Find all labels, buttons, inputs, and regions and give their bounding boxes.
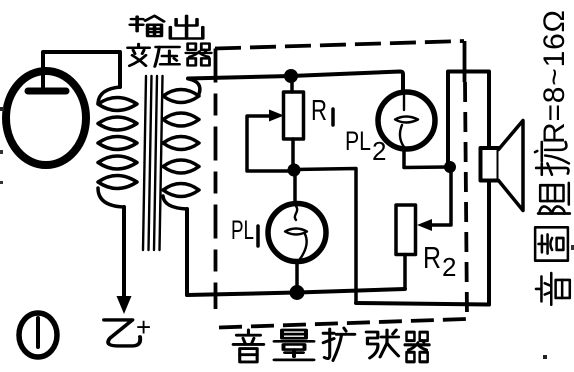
svg-text:PL: PL bbox=[231, 215, 254, 245]
svg-text:2: 2 bbox=[442, 252, 456, 282]
svg-text:R: R bbox=[311, 95, 327, 127]
svg-text:R: R bbox=[423, 240, 441, 275]
svg-text:PL: PL bbox=[345, 126, 371, 156]
svg-text:R=8~16Ω: R=8~16Ω bbox=[538, 9, 571, 144]
svg-text:2: 2 bbox=[372, 136, 386, 166]
